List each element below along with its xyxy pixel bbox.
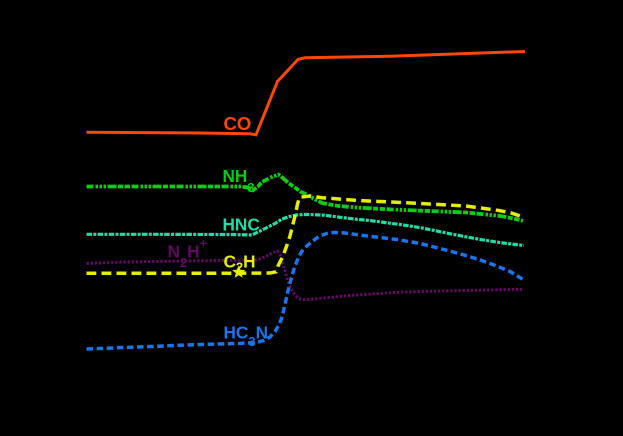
curve NH3 (green dash-dot) xyxy=(87,175,524,221)
curve HNC (cyan dash-dot) xyxy=(87,214,525,245)
svg-text:CO: CO xyxy=(224,113,252,134)
svg-text:HNC: HNC xyxy=(223,214,260,234)
curve CO (red solid) xyxy=(87,52,526,135)
curve HC3N (blue dashed) xyxy=(87,232,525,349)
curve N2H+ (purple dotted) xyxy=(87,251,525,300)
curve C2H (yellow dashed) xyxy=(87,196,525,273)
marker star C2H (yellow) xyxy=(232,265,245,277)
